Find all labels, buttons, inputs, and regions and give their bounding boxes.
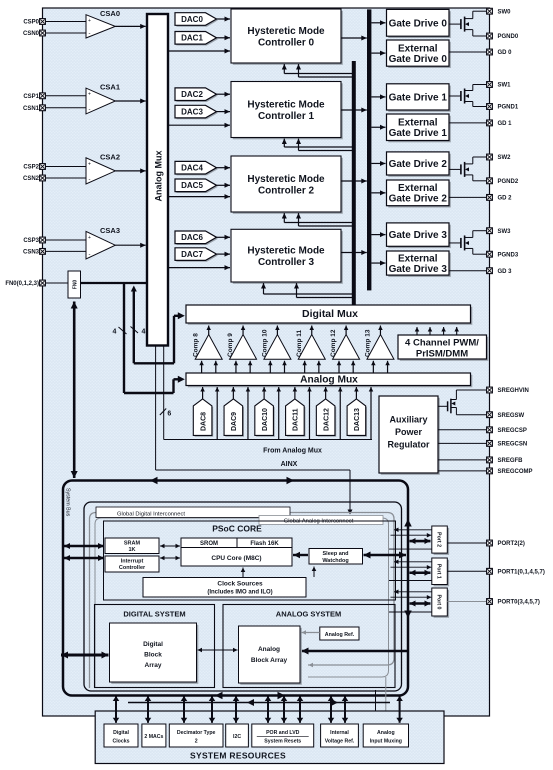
svg-text:Comp 11: Comp 11 [296,330,303,357]
svg-text:DAC12: DAC12 [323,408,330,431]
svg-text:SREGFB: SREGFB [498,458,524,464]
svg-text:DIGITAL SYSTEM: DIGITAL SYSTEM [123,610,185,619]
svg-text:+: + [88,18,91,24]
svg-text:SROM: SROM [200,541,218,547]
svg-text:Comp 9: Comp 9 [227,333,234,357]
svg-text:Global Digital Interconnect: Global Digital Interconnect [117,511,185,517]
svg-text:CSN2: CSN2 [23,176,40,182]
svg-text:DAC10: DAC10 [262,408,269,431]
svg-text:1K: 1K [128,547,135,553]
svg-text:SREGCSP: SREGCSP [498,428,527,434]
svg-text:-: - [89,107,91,113]
svg-text:Analog Mux: Analog Mux [154,151,164,202]
svg-text:POR and LVD: POR and LVD [266,730,300,736]
svg-text:DAC11: DAC11 [293,408,300,431]
svg-text:Flash 16K: Flash 16K [250,541,279,547]
svg-text:Controller: Controller [119,565,146,571]
svg-text:Hysteretic Mode: Hysteretic Mode [247,100,325,111]
svg-text:DAC0: DAC0 [181,15,203,24]
svg-text:CSP2: CSP2 [23,165,39,171]
svg-text:CPU Core (M8C): CPU Core (M8C) [211,555,261,562]
svg-text:Regulator: Regulator [387,440,430,450]
svg-text:Block Array: Block Array [251,657,288,664]
svg-text:PGND1: PGND1 [498,105,519,111]
svg-text:External: External [398,253,438,264]
svg-text:Gate Drive 3: Gate Drive 3 [389,230,448,241]
svg-text:Gate Drive 0: Gate Drive 0 [389,18,448,29]
svg-text:Analog: Analog [258,646,280,653]
svg-text:From Analog Mux: From Analog Mux [263,448,322,455]
svg-text:SW0: SW0 [498,9,512,15]
svg-text:Block: Block [144,652,162,659]
svg-text:Controller 0: Controller 0 [258,38,315,49]
svg-text:External: External [398,43,438,54]
svg-text:SREGSW: SREGSW [498,413,525,419]
svg-text:System Bus: System Bus [65,488,71,517]
svg-text:Analog Ref.: Analog Ref. [325,632,355,638]
svg-text:4: 4 [142,329,146,336]
svg-text:Comp 12: Comp 12 [330,329,337,357]
svg-text:Gate Drive 2: Gate Drive 2 [389,194,448,205]
svg-text:DAC1: DAC1 [181,34,203,43]
svg-text:CSP0: CSP0 [23,20,39,26]
svg-text:CSA2: CSA2 [100,152,120,161]
svg-text:DAC3: DAC3 [181,107,203,116]
svg-text:Port 1: Port 1 [436,564,442,579]
svg-text:CSN0: CSN0 [23,31,40,37]
svg-text:Controller 3: Controller 3 [258,257,315,268]
svg-text:Gate Drive 0: Gate Drive 0 [389,54,448,65]
svg-text:AINX: AINX [281,461,298,468]
svg-text:System Resets: System Resets [264,738,301,744]
svg-text:CSA3: CSA3 [100,226,120,235]
svg-text:DAC5: DAC5 [181,181,203,190]
svg-text:External: External [398,183,438,194]
svg-text:SRAM: SRAM [124,541,141,547]
svg-text:GD 0: GD 0 [498,50,513,56]
svg-text:CSA0: CSA0 [100,9,120,18]
svg-text:DAC13: DAC13 [354,408,361,431]
svg-text:SREGCOMP: SREGCOMP [498,469,533,475]
svg-text:Gate Drive 1: Gate Drive 1 [389,93,448,104]
svg-text:Gate Drive 2: Gate Drive 2 [389,159,448,170]
svg-text:Voltage Ref.: Voltage Ref. [325,738,355,744]
svg-text:DAC6: DAC6 [181,233,203,242]
svg-text:CSP1: CSP1 [23,94,39,100]
svg-text:4: 4 [113,329,117,336]
svg-text:CSP3: CSP3 [23,238,39,244]
svg-text:DAC7: DAC7 [181,250,203,259]
svg-text:2: 2 [195,738,198,744]
svg-text:Sleep and: Sleep and [323,551,349,557]
svg-text:PORT2(2): PORT2(2) [498,541,525,547]
svg-text:PGND0: PGND0 [498,34,519,40]
svg-text:-: - [89,31,91,37]
svg-text:I2C: I2C [233,734,241,740]
svg-text:GD 2: GD 2 [498,196,513,202]
svg-text:Digital Mux: Digital Mux [302,308,358,320]
svg-text:Gate Drive 3: Gate Drive 3 [389,264,448,275]
svg-text:SYSTEM RESOURCES: SYSTEM RESOURCES [190,751,286,761]
svg-text:CSA1: CSA1 [100,83,120,92]
svg-text:+: + [88,235,91,241]
svg-text:External: External [398,117,438,128]
svg-text:2 MACs: 2 MACs [144,734,163,740]
svg-text:+: + [88,92,91,98]
svg-text:PGND3: PGND3 [498,252,519,258]
svg-text:Hysteretic Mode: Hysteretic Mode [247,246,325,257]
svg-text:SW2: SW2 [498,155,512,161]
svg-text:PORT1(0,1,4,5,7): PORT1(0,1,4,5,7) [498,570,545,576]
svg-text:Port 0: Port 0 [436,594,442,609]
svg-text:FN0: FN0 [72,280,78,290]
svg-text:Gate Drive 1: Gate Drive 1 [389,128,448,139]
svg-text:DAC4: DAC4 [181,164,203,173]
svg-text:Controller 1: Controller 1 [258,111,315,122]
svg-text:CSN3: CSN3 [23,250,40,256]
svg-text:Auxiliary: Auxiliary [389,415,427,425]
svg-text:Decimator Type: Decimator Type [177,730,216,736]
svg-text:Comp 13: Comp 13 [364,329,371,357]
svg-text:Comp 8: Comp 8 [193,333,200,357]
svg-text:Digital: Digital [113,730,129,736]
svg-text:Array: Array [145,662,162,669]
svg-text:+: + [88,161,91,167]
svg-text:Hysteretic Mode: Hysteretic Mode [247,26,325,37]
svg-text:4 Channel PWM/: 4 Channel PWM/ [405,338,479,349]
svg-text:GD 3: GD 3 [498,269,513,275]
svg-text:Digital: Digital [143,641,163,648]
svg-text:SREGCSN: SREGCSN [498,442,528,448]
svg-text:Analog Mux: Analog Mux [300,374,358,385]
svg-text:Analog: Analog [377,730,395,736]
svg-text:SW3: SW3 [498,229,512,235]
svg-text:Watchdog: Watchdog [322,558,348,564]
svg-text:Controller 2: Controller 2 [258,186,315,197]
svg-text:DAC2: DAC2 [181,90,203,99]
svg-text:SREGHVIN: SREGHVIN [498,388,529,394]
svg-text:PORT0(3,4,5,7): PORT0(3,4,5,7) [498,600,540,606]
svg-text:PSoC CORE: PSoC CORE [212,524,262,534]
svg-text:Interrupt: Interrupt [121,559,144,565]
svg-text:Clocks: Clocks [112,738,129,744]
svg-text:-: - [89,177,91,183]
svg-text:ANALOG SYSTEM: ANALOG SYSTEM [276,610,341,619]
svg-text:DAC9: DAC9 [231,412,238,431]
svg-text:PGND2: PGND2 [498,179,519,185]
svg-text:FN0(0,1,2,3): FN0(0,1,2,3) [5,281,39,287]
svg-text:DAC8: DAC8 [200,412,207,431]
svg-text:Power: Power [395,427,423,437]
svg-text:PrISM/DMM: PrISM/DMM [416,349,468,360]
svg-text:Comp 10: Comp 10 [261,329,268,357]
svg-text:CSN1: CSN1 [23,106,40,112]
svg-text:(Includes IMO and ILO): (Includes IMO and ILO) [207,590,272,596]
svg-text:Internal: Internal [330,730,349,736]
svg-text:Input Muxing: Input Muxing [370,738,402,744]
svg-text:Hysteretic Mode: Hysteretic Mode [247,174,325,185]
svg-text:-: - [89,252,91,258]
svg-text:GD 1: GD 1 [498,121,513,127]
svg-text:Port 2: Port 2 [436,532,442,547]
svg-text:Clock Sources: Clock Sources [217,580,263,587]
svg-text:6: 6 [167,411,171,418]
svg-text:SW1: SW1 [498,83,512,89]
